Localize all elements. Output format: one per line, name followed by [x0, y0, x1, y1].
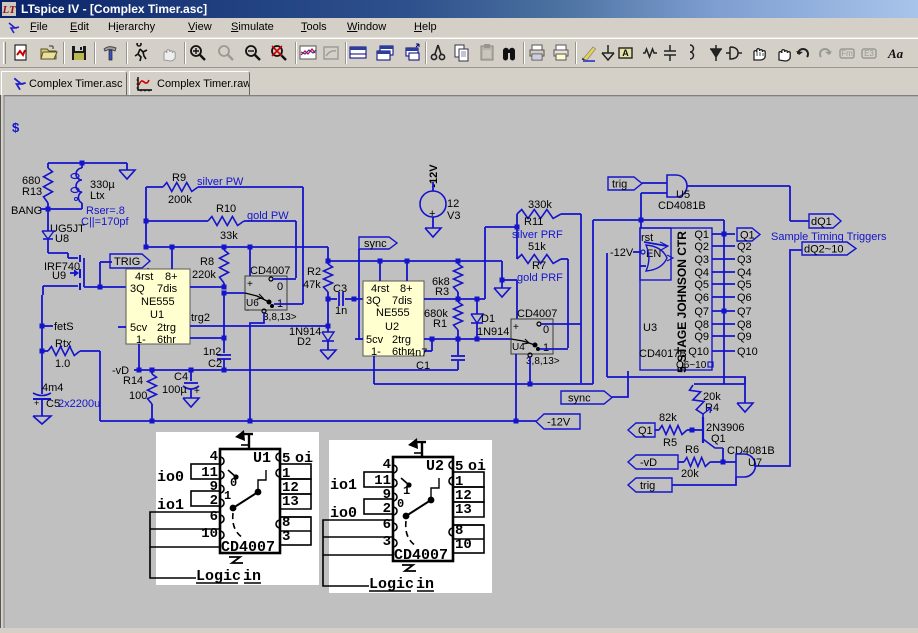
svg-text:U1: U1 — [253, 450, 271, 467]
svg-text:gold PRF: gold PRF — [517, 272, 563, 284]
svg-text:R6: R6 — [685, 444, 699, 456]
svg-text:Q4: Q4 — [694, 267, 709, 279]
svg-text:Q10: Q10 — [737, 346, 758, 358]
svg-text:Fm: Fm — [841, 49, 853, 58]
svg-text:dQ2~10: dQ2~10 — [804, 244, 843, 256]
svg-text:CD4007: CD4007 — [517, 308, 557, 320]
svg-text:Q10: Q10 — [688, 346, 709, 358]
svg-text:+: + — [34, 398, 39, 408]
svg-text:-: - — [246, 305, 249, 316]
svg-text:4n7: 4n7 — [409, 347, 427, 359]
svg-text:4rst: 4rst — [371, 283, 389, 295]
svg-text:C1: C1 — [416, 360, 430, 372]
svg-text:R3: R3 — [435, 286, 449, 298]
svg-text:E3: E3 — [864, 49, 874, 58]
svg-text:U7: U7 — [748, 457, 762, 469]
svg-text:C3: C3 — [333, 283, 347, 295]
svg-text:sync: sync — [568, 393, 591, 405]
svg-text:Q3: Q3 — [694, 254, 709, 266]
svg-text:D1: D1 — [481, 313, 495, 325]
svg-text:C||=170pf: C||=170pf — [81, 216, 130, 228]
svg-text:1-: 1- — [371, 346, 381, 358]
svg-text:TRIG: TRIG — [114, 256, 140, 268]
svg-text:Q6: Q6 — [694, 292, 709, 304]
svg-text:Q5: Q5 — [694, 279, 709, 291]
svg-text:R14: R14 — [123, 375, 143, 387]
svg-text:-12V: -12V — [610, 247, 634, 259]
svg-text:Q2: Q2 — [737, 241, 752, 253]
svg-text:Q6: Q6 — [737, 292, 752, 304]
svg-text:4: 4 — [383, 457, 391, 473]
svg-text:220k: 220k — [192, 269, 216, 281]
svg-text:0: 0 — [277, 281, 283, 293]
svg-text:Q1: Q1 — [711, 433, 726, 445]
svg-text:5cv: 5cv — [130, 322, 148, 334]
svg-text:Q7: Q7 — [694, 306, 709, 318]
svg-text:4rst: 4rst — [135, 271, 153, 283]
svg-text:-vD: -vD — [640, 457, 657, 469]
svg-text:R11: R11 — [524, 216, 543, 228]
svg-text:+: + — [513, 322, 519, 333]
svg-text:R5: R5 — [663, 437, 677, 449]
svg-text:gold PW: gold PW — [247, 210, 289, 222]
svg-text:CD4007: CD4007 — [250, 265, 290, 277]
svg-text:0: 0 — [543, 324, 549, 336]
svg-text:5cv: 5cv — [366, 334, 384, 346]
svg-text:1: 1 — [403, 484, 410, 498]
svg-text:CD4081B: CD4081B — [658, 200, 706, 212]
svg-text:$: $ — [12, 120, 20, 135]
svg-text:+: + — [247, 279, 253, 290]
svg-text:U8: U8 — [55, 233, 69, 245]
svg-text:3Q: 3Q — [130, 283, 145, 295]
svg-text:U3: U3 — [643, 322, 657, 334]
svg-text:R7: R7 — [532, 260, 546, 272]
svg-text:330k: 330k — [528, 199, 552, 211]
svg-text:-12V: -12V — [547, 417, 571, 429]
svg-text:silver PRF: silver PRF — [512, 229, 563, 241]
svg-text:Q5: Q5 — [737, 279, 752, 291]
svg-text:6thr: 6thr — [157, 334, 176, 346]
svg-text:0: 0 — [397, 497, 404, 511]
svg-text:Q1: Q1 — [638, 425, 653, 437]
svg-text:-12V: -12V — [428, 164, 440, 188]
svg-text:io0: io0 — [157, 469, 184, 486]
svg-text:C2: C2 — [208, 358, 222, 370]
svg-text:20k: 20k — [681, 468, 699, 480]
svg-text:7dis: 7dis — [392, 295, 413, 307]
svg-text:4m4: 4m4 — [42, 382, 63, 394]
svg-text:8+: 8+ — [400, 283, 413, 295]
svg-text:33k: 33k — [220, 230, 238, 242]
svg-text:trg2: trg2 — [191, 312, 210, 324]
svg-text:A: A — [622, 48, 629, 58]
svg-text:Ltx: Ltx — [90, 190, 105, 202]
svg-text:R8: R8 — [200, 256, 214, 268]
svg-text:io0: io0 — [330, 505, 357, 522]
svg-text:R2: R2 — [307, 266, 321, 278]
svg-text:CD4017B: CD4017B — [639, 348, 687, 360]
svg-text:NE555: NE555 — [141, 296, 175, 308]
svg-text:NE555: NE555 — [376, 307, 410, 319]
svg-text:7dis: 7dis — [157, 283, 178, 295]
svg-text:R9: R9 — [172, 172, 186, 184]
svg-text:1N914: 1N914 — [477, 326, 509, 338]
svg-text:U9: U9 — [52, 270, 66, 282]
svg-text:sync: sync — [364, 238, 387, 250]
svg-text:U2: U2 — [385, 321, 399, 333]
svg-text:Q7: Q7 — [737, 306, 752, 318]
svg-text:Q2: Q2 — [694, 241, 709, 253]
svg-text:D2: D2 — [297, 336, 311, 348]
svg-text:1.0: 1.0 — [55, 358, 70, 370]
svg-text:Q6~10: Q6~10 — [676, 360, 707, 371]
svg-text:C4: C4 — [174, 371, 188, 383]
svg-text:CD4007: CD4007 — [221, 539, 275, 556]
svg-text:0: 0 — [230, 476, 237, 490]
svg-text:trig: trig — [612, 179, 627, 191]
svg-text:io1: io1 — [330, 477, 357, 494]
svg-text:2trg: 2trg — [392, 334, 411, 346]
svg-text:Q3: Q3 — [737, 254, 752, 266]
svg-text:io1: io1 — [157, 497, 184, 514]
svg-text:Q9: Q9 — [737, 331, 752, 343]
svg-text:+: + — [194, 386, 200, 397]
svg-text:100µ: 100µ — [162, 384, 187, 396]
svg-text:R1: R1 — [433, 318, 447, 330]
svg-text:82k: 82k — [659, 412, 677, 424]
svg-text:Sample Timing Triggers: Sample Timing Triggers — [771, 231, 887, 243]
svg-text:Q1: Q1 — [694, 229, 709, 241]
svg-text:3Q: 3Q — [366, 295, 381, 307]
svg-text:1: 1 — [224, 489, 231, 503]
svg-text:CD4007: CD4007 — [394, 547, 448, 564]
svg-text:Q4: Q4 — [737, 267, 752, 279]
svg-text:R10: R10 — [216, 203, 236, 215]
svg-text:CD4081B: CD4081B — [727, 445, 775, 457]
svg-text:2x2200u: 2x2200u — [58, 398, 100, 410]
svg-text:51k: 51k — [528, 241, 546, 253]
svg-text:13: 13 — [282, 494, 299, 510]
svg-text:silver PW: silver PW — [197, 176, 244, 188]
svg-text:fetS: fetS — [54, 321, 74, 333]
svg-text:Aa: Aa — [887, 46, 904, 61]
svg-text:3,8,13>: 3,8,13> — [526, 356, 560, 367]
svg-text:13: 13 — [455, 502, 472, 518]
svg-text:4: 4 — [210, 449, 218, 465]
svg-text:3,8,13>: 3,8,13> — [263, 312, 297, 323]
svg-text:200k: 200k — [168, 194, 192, 206]
svg-text:trig: trig — [640, 480, 655, 492]
svg-text:100: 100 — [129, 390, 147, 402]
svg-text:dQ1: dQ1 — [811, 216, 832, 228]
svg-text:2trg: 2trg — [157, 322, 176, 334]
svg-text:BANG: BANG — [11, 205, 42, 217]
svg-text:Q8: Q8 — [694, 319, 709, 331]
svg-text:Q9: Q9 — [694, 331, 709, 343]
svg-text:12: 12 — [447, 198, 459, 210]
svg-text:1-: 1- — [136, 334, 146, 346]
svg-text:R13: R13 — [22, 186, 42, 198]
svg-text:47k: 47k — [303, 279, 321, 291]
svg-text:1n2: 1n2 — [203, 346, 221, 358]
svg-text:Q8: Q8 — [737, 319, 752, 331]
svg-text:LT: LT — [2, 4, 16, 16]
svg-text:Q1: Q1 — [740, 230, 755, 242]
svg-text:8+: 8+ — [165, 271, 178, 283]
svg-text:U1: U1 — [150, 309, 164, 321]
svg-text:1: 1 — [543, 342, 549, 354]
svg-text:1n: 1n — [335, 305, 347, 317]
svg-text:V3: V3 — [447, 210, 460, 222]
svg-text:U2: U2 — [426, 458, 444, 475]
